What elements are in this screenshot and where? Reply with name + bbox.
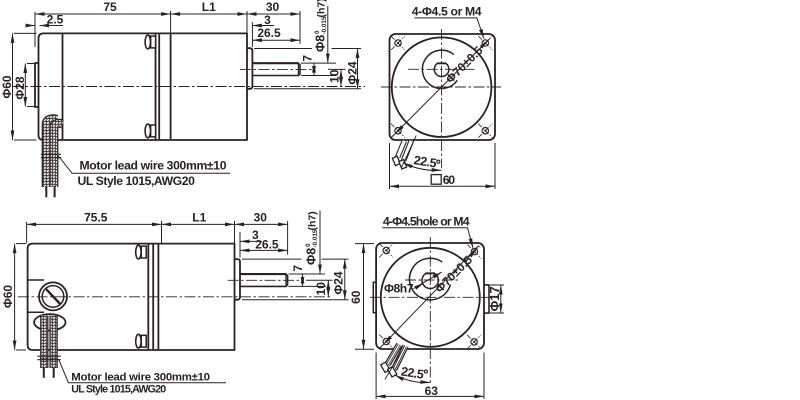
svg-text:4-Φ4.5hole or M4: 4-Φ4.5hole or M4 xyxy=(383,214,470,228)
svg-text:26.5: 26.5 xyxy=(257,26,281,40)
svg-text:Φ24: Φ24 xyxy=(345,61,359,85)
svg-text:UL Style 1015,AWG20: UL Style 1015,AWG20 xyxy=(71,384,166,396)
svg-text:Motor lead wire 300mm±10: Motor lead wire 300mm±10 xyxy=(71,371,209,383)
svg-text:7: 7 xyxy=(291,265,305,272)
svg-text:Φ8: Φ8 xyxy=(305,248,319,265)
svg-text:L1: L1 xyxy=(192,211,206,225)
svg-text:7: 7 xyxy=(301,55,315,62)
svg-text:60: 60 xyxy=(349,290,363,304)
svg-text:Φ60: Φ60 xyxy=(1,285,15,309)
svg-text:30: 30 xyxy=(266,0,280,14)
svg-text:10: 10 xyxy=(328,69,342,83)
svg-text:L1: L1 xyxy=(202,0,216,14)
svg-text:Φ24: Φ24 xyxy=(332,271,346,295)
svg-text:Φ60: Φ60 xyxy=(0,75,14,99)
svg-text:0: 0 xyxy=(314,30,321,34)
svg-text:75: 75 xyxy=(103,0,117,14)
svg-text:Φ8: Φ8 xyxy=(314,35,328,52)
svg-text:Φ28: Φ28 xyxy=(13,76,27,100)
svg-text:30: 30 xyxy=(254,211,268,225)
svg-text:(h7): (h7) xyxy=(316,0,328,18)
svg-text:Φ17: Φ17 xyxy=(487,286,502,311)
svg-text:-0.015: -0.015 xyxy=(312,229,319,247)
svg-text:Motor lead wire 300mm±10: Motor lead wire 300mm±10 xyxy=(80,159,227,173)
svg-text:10: 10 xyxy=(314,282,328,296)
svg-text:0: 0 xyxy=(305,243,312,247)
svg-text:75.5: 75.5 xyxy=(84,211,108,225)
svg-text:26.5: 26.5 xyxy=(255,238,279,252)
svg-text:63: 63 xyxy=(425,384,439,398)
svg-text:Φ8h7: Φ8h7 xyxy=(384,281,414,295)
svg-text:-0.015: -0.015 xyxy=(321,16,328,34)
svg-text:2.5: 2.5 xyxy=(47,12,64,26)
svg-text:4-Φ4.5 or M4: 4-Φ4.5 or M4 xyxy=(412,4,482,18)
svg-text:60: 60 xyxy=(443,173,456,187)
svg-text:UL Style 1015,AWG20: UL Style 1015,AWG20 xyxy=(78,174,196,188)
svg-text:(h7): (h7) xyxy=(307,211,319,230)
svg-text:3: 3 xyxy=(264,13,271,27)
